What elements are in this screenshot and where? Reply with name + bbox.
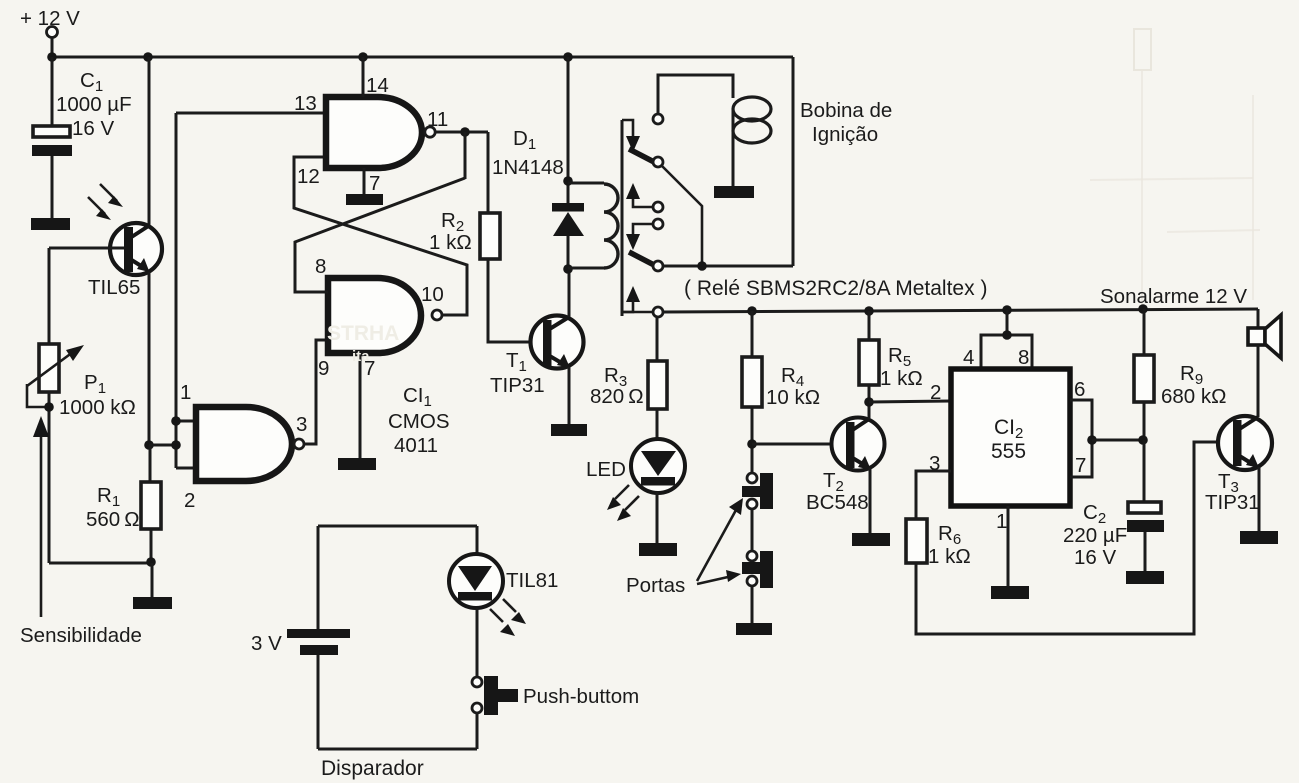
wire R4 node to T2 base	[752, 443, 846, 446]
transistor T2 BC548	[806, 418, 885, 515]
NAND gate CI1a pins 1,2 -> 3	[180, 381, 307, 512]
ground below T2	[852, 533, 890, 546]
svg-text:1N4148: 1N4148	[492, 156, 564, 179]
relay contact 6	[653, 307, 663, 317]
wire output11 to R2	[487, 132, 490, 213]
svg-text:TIL81: TIL81	[506, 569, 558, 592]
relay contact 3 with arrow	[626, 183, 663, 212]
transistor T1 TIP31	[490, 316, 584, 398]
svg-text:2: 2	[930, 381, 941, 404]
label Bobina de Ignicao	[800, 99, 892, 146]
svg-text:16 V: 16 V	[72, 117, 114, 140]
svg-text:3 V: 3 V	[251, 632, 282, 655]
wire TIL81 to push button	[476, 608, 479, 677]
wire terminal to bus	[51, 37, 54, 57]
door switch 2	[742, 551, 773, 588]
node junction emitter-R1	[144, 440, 154, 450]
wire sonalarme rail	[663, 309, 1258, 312]
ghost bleedthrough text	[327, 322, 399, 365]
svg-text:7: 7	[369, 172, 380, 195]
LED TIL81	[449, 554, 558, 608]
node junction bus-pin14	[358, 52, 368, 62]
relay contact 1	[653, 114, 663, 124]
svg-text:( Relé SBMS2RC2/8A Metaltex ): ( Relé SBMS2RC2/8A Metaltex )	[684, 277, 987, 300]
svg-text:1000 µF: 1000 µF	[56, 93, 132, 116]
svg-text:10: 10	[421, 283, 444, 306]
wire pin7 gate A stub	[363, 168, 366, 194]
svg-text:680 kΩ: 680 kΩ	[1161, 385, 1226, 408]
wire contact 2 to common node	[661, 165, 702, 266]
svg-text:8: 8	[315, 255, 326, 278]
label Portas with arrows	[626, 498, 743, 597]
svg-text:11: 11	[427, 108, 448, 131]
svg-text:Bobina de: Bobina de	[800, 99, 892, 122]
ground below T1	[551, 424, 587, 436]
node junction bus-TIL65	[143, 52, 153, 62]
wire bus to TIL65 collector	[148, 57, 151, 225]
svg-text:12: 12	[297, 165, 320, 188]
node junction output11	[460, 127, 470, 137]
svg-text:820 Ω: 820 Ω	[590, 385, 644, 408]
label CI1	[388, 384, 450, 457]
resistor R3	[590, 317, 667, 438]
relay armature bar	[621, 120, 624, 316]
svg-text:7: 7	[1075, 454, 1086, 477]
svg-text:1 kΩ: 1 kΩ	[928, 545, 971, 568]
wire trigger loop top	[318, 525, 477, 528]
ground below gate A	[346, 194, 383, 205]
svg-text:TIP31: TIP31	[1205, 491, 1260, 514]
wire pin1 to ground	[1007, 506, 1010, 586]
wire gate C inputs / pin 13 riser	[171, 113, 194, 468]
LED indicator	[586, 439, 685, 493]
ground below LED	[639, 543, 677, 556]
resistor R1	[86, 445, 161, 563]
svg-text:1: 1	[180, 381, 191, 404]
node junction R9-C2	[1138, 435, 1148, 445]
relay switch 2 lever	[629, 252, 656, 266]
svg-text:10 kΩ: 10 kΩ	[766, 386, 820, 409]
wire T3 emitter to ground	[1258, 467, 1261, 531]
wire pin 14 from bus	[362, 57, 365, 97]
wire between door switches	[751, 509, 754, 551]
svg-text:4: 4	[963, 346, 974, 369]
wire +12V bus	[52, 56, 793, 59]
svg-text:1 kΩ: 1 kΩ	[429, 231, 472, 254]
node junction rail-R9	[1138, 304, 1148, 314]
ignition coil Bobina	[733, 97, 771, 186]
wire pin13 horizontal	[176, 112, 324, 115]
NAND gate CI1b pins 8,9 -> 10	[315, 255, 444, 380]
wire P1 bottom to R1 ground node	[49, 562, 151, 565]
node +12V terminal	[20, 7, 80, 38]
svg-text:14: 14	[366, 74, 389, 97]
node junction T2 collector / pin2	[864, 397, 874, 407]
svg-text:8: 8	[1018, 346, 1029, 369]
svg-text:LED: LED	[586, 458, 626, 481]
svg-text:Ignição: Ignição	[812, 123, 878, 146]
relay switch 1 lever	[629, 149, 656, 163]
wire trigger loop left lower	[317, 655, 320, 749]
ground below T3	[1240, 531, 1278, 544]
svg-text:3: 3	[296, 413, 307, 436]
capacitor C2	[1063, 440, 1164, 571]
resistor R6	[906, 519, 971, 568]
wire bus to D1	[567, 57, 570, 204]
ground below pin1	[991, 586, 1029, 599]
wire pin3 to R6	[916, 471, 951, 519]
svg-text:TIP31: TIP31	[490, 374, 545, 397]
diode D1 1N4148	[492, 127, 584, 270]
transistor TIL65 phototransistor	[49, 223, 162, 445]
ground below R1	[133, 563, 172, 609]
svg-text:Sensibilidade: Sensibilidade	[20, 624, 142, 647]
wire LED to ground	[656, 492, 659, 543]
svg-text:16 V: 16 V	[1074, 546, 1116, 569]
push button	[472, 676, 639, 715]
node junction contact2 path	[697, 261, 707, 271]
node junction rail-R5	[864, 306, 874, 316]
resistor R2	[429, 209, 500, 259]
wire rail to speaker	[1257, 309, 1260, 330]
wire emitter node to gate C inputs	[149, 444, 176, 447]
wire push button to loop bottom	[476, 713, 479, 749]
sensitivity arrow	[20, 416, 142, 647]
svg-text:ita: ita	[352, 348, 370, 365]
wire gate C output to pin 9	[304, 340, 327, 444]
svg-text:Push-buttom: Push-buttom	[523, 685, 639, 708]
svg-text:13: 13	[294, 92, 317, 115]
svg-text:STRHA: STRHA	[327, 322, 399, 345]
wire pin7 gate B to ground	[359, 353, 362, 458]
light arrows into TIL65	[88, 184, 123, 220]
svg-text:CMOS: CMOS	[388, 410, 450, 433]
wire output11 down to cross coupling	[464, 132, 467, 179]
svg-text:1000 kΩ: 1000 kΩ	[59, 396, 136, 419]
relay bottom arrow	[622, 286, 653, 312]
wire R6 to T3 base	[916, 442, 1233, 634]
node junction bus-C1	[47, 52, 57, 62]
wire pins 6,7 tie	[1070, 400, 1143, 477]
node junction bus-D1	[563, 52, 573, 62]
node junction D1-coil top	[563, 176, 573, 186]
wire trigger loop bottom	[318, 748, 477, 751]
svg-text:6: 6	[1074, 378, 1085, 401]
node junction R4-T2 base	[747, 439, 757, 449]
svg-text:TIL65: TIL65	[88, 276, 140, 299]
wire R2 to T1 base	[488, 259, 543, 342]
relay switch 1 arrow	[622, 120, 640, 152]
wire bus right side down	[792, 57, 795, 266]
ground below C1	[31, 218, 70, 230]
svg-text:1: 1	[996, 510, 1007, 533]
wire contact5 to +12V riser	[663, 265, 793, 268]
wire loop top to TIL81	[476, 526, 479, 555]
door switch 1	[742, 473, 773, 509]
relay coil	[568, 183, 618, 268]
node junction rail-555 supply	[1002, 305, 1012, 315]
LED arrows	[607, 485, 639, 521]
TIL81 arrows	[490, 599, 526, 636]
wire pin2	[869, 401, 951, 402]
svg-text:4011: 4011	[394, 434, 438, 457]
wire gate B output to gate A pin 12 (cross coupling)	[294, 157, 467, 315]
svg-text:Sonalarme 12 V: Sonalarme 12 V	[1100, 285, 1247, 308]
potentiometer P1	[27, 344, 136, 563]
ground below C2	[1126, 571, 1164, 584]
transistor T3 TIP31	[1205, 416, 1272, 514]
wire rail to pins 4,8	[981, 310, 1032, 369]
svg-text:Disparador: Disparador	[321, 757, 424, 780]
wire gate A output node	[436, 131, 488, 134]
resistor R4	[742, 311, 820, 473]
node junction rail-R4	[747, 306, 757, 316]
svg-text:9: 9	[318, 357, 329, 380]
capacitor C1	[32, 57, 132, 218]
wire trigger loop left upper	[317, 526, 320, 630]
IC CI2 555	[929, 346, 1086, 533]
svg-text:555: 555	[991, 440, 1026, 463]
ground below ignition coil	[714, 186, 754, 198]
wire gate A output to gate B pin 8 (cross coupling)	[295, 178, 465, 292]
svg-text:2: 2	[184, 489, 195, 512]
resistor R5	[859, 311, 923, 402]
svg-text:560 Ω: 560 Ω	[86, 508, 140, 531]
svg-text:Portas: Portas	[626, 574, 685, 597]
relay contact 2	[653, 157, 663, 167]
wire T1 collector up	[568, 270, 571, 317]
wire T2 emitter to ground	[869, 468, 872, 533]
relay contact 4 with arrow	[626, 219, 663, 250]
NAND gate CI1c pins 13,12 -> 11	[294, 74, 448, 195]
wire switch2 to ground	[751, 586, 754, 623]
node junction D1-coil bottom	[563, 264, 573, 274]
battery 3V	[251, 629, 350, 655]
wire TIL65 base to P1	[48, 248, 51, 344]
wire T2 collector	[868, 402, 871, 419]
svg-text:BC548: BC548	[806, 491, 869, 514]
resistor R9	[1134, 309, 1226, 440]
wire T1 emitter to ground	[568, 367, 571, 424]
wire contact1 to ignition coil	[658, 75, 733, 114]
ground below door switches	[736, 623, 772, 635]
ground below gate B	[338, 458, 376, 470]
svg-text:1 kΩ: 1 kΩ	[880, 367, 923, 390]
wire speaker to T3 collector	[1257, 345, 1260, 417]
relay contact 5	[653, 261, 663, 271]
svg-text:220 µF: 220 µF	[1063, 524, 1127, 547]
speaker Sonalarme	[1248, 315, 1281, 358]
node junction R1-ground	[146, 557, 156, 567]
